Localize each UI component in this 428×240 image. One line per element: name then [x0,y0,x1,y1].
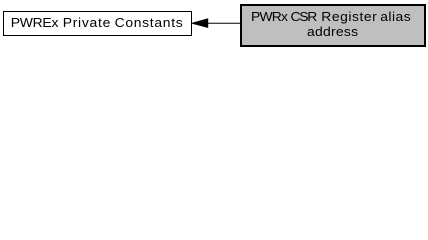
svg-text:address: address [307,25,358,39]
svg-text:CSR: CSR [291,9,318,23]
svg-text:PWREx: PWREx [11,15,59,29]
node: PWRx CSR Register alias address (current node, gray) [241,5,425,46]
svg-text:PWRx: PWRx [251,9,288,23]
svg-text:alias: alias [380,9,411,23]
svg-text:Private: Private [63,15,111,29]
svg-text:Constants: Constants [115,15,183,29]
node: PWREx Private Constants box [4,12,192,36]
edge arrowhead [192,19,207,28]
svg-text:Register: Register [321,9,377,23]
edge wire [206,22,241,24]
